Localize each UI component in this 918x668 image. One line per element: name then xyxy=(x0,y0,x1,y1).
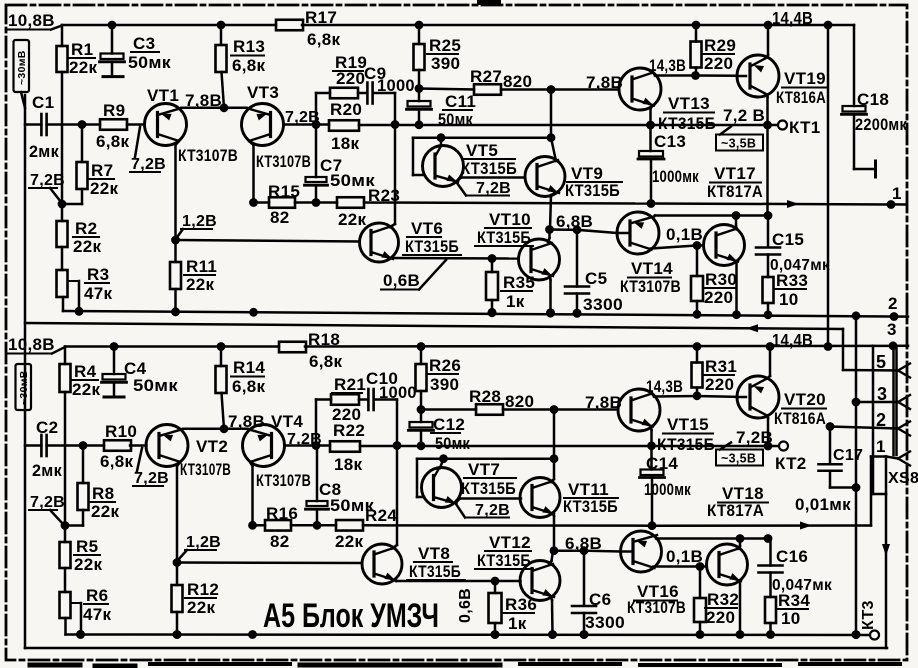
svg-text:5: 5 xyxy=(876,352,886,372)
svg-text:7,8В: 7,8В xyxy=(185,91,222,110)
svg-text:6,8к: 6,8к xyxy=(232,56,266,75)
svg-text:R5: R5 xyxy=(76,537,98,556)
svg-text:14,3В: 14,3В xyxy=(646,377,683,396)
svg-text:22к: 22к xyxy=(72,380,101,399)
svg-text:7,2В: 7,2В xyxy=(476,180,511,197)
svg-text:R34: R34 xyxy=(778,591,810,610)
svg-text:VT2: VT2 xyxy=(196,437,228,456)
svg-text:6,8к: 6,8к xyxy=(309,352,343,371)
svg-text:2200мк: 2200мк xyxy=(855,116,907,134)
svg-text:С18: С18 xyxy=(857,90,889,109)
svg-text:220: 220 xyxy=(704,54,733,73)
svg-text:22к: 22к xyxy=(74,555,103,574)
svg-text:22к: 22к xyxy=(69,58,98,77)
svg-text:КТ315Б: КТ315Б xyxy=(461,159,517,178)
svg-text:КТ315Б: КТ315Б xyxy=(461,479,516,498)
svg-text:R16: R16 xyxy=(266,504,298,523)
svg-text:R30: R30 xyxy=(705,270,737,289)
svg-text:0,6В: 0,6В xyxy=(457,588,474,623)
svg-text:КТ3107В: КТ3107В xyxy=(620,277,681,296)
svg-text:КТ2: КТ2 xyxy=(775,454,807,473)
svg-text:R1: R1 xyxy=(71,40,93,59)
svg-text:КТ315Б: КТ315Б xyxy=(405,237,459,256)
svg-text:VT20: VT20 xyxy=(784,390,826,409)
svg-text:КТ3107В: КТ3107В xyxy=(180,460,231,479)
svg-text:22к: 22к xyxy=(187,598,216,617)
svg-text:6,8к: 6,8к xyxy=(307,30,341,49)
svg-text:10,8В: 10,8В xyxy=(8,335,55,354)
svg-text:КТ816А: КТ816А xyxy=(776,88,826,107)
svg-text:VT1: VT1 xyxy=(147,86,179,105)
svg-text:2: 2 xyxy=(876,410,886,430)
svg-text:С6: С6 xyxy=(589,590,611,609)
svg-text:R8: R8 xyxy=(92,484,114,503)
svg-text:КТ3107В: КТ3107В xyxy=(627,598,686,617)
svg-text:R35: R35 xyxy=(503,273,535,292)
svg-text:10,8В: 10,8В xyxy=(8,11,55,30)
svg-text:R32: R32 xyxy=(707,590,739,609)
svg-text:VT13: VT13 xyxy=(668,94,710,113)
svg-text:22к: 22к xyxy=(338,210,367,229)
svg-text:ХS8: ХS8 xyxy=(888,470,918,487)
svg-text:50мк: 50мк xyxy=(435,435,470,453)
svg-text:КТ315Б: КТ315Б xyxy=(563,497,618,516)
svg-text:0,6В: 0,6В xyxy=(383,271,420,290)
svg-text:С15: С15 xyxy=(772,230,804,249)
svg-text:7,2В: 7,2В xyxy=(30,494,65,511)
svg-text:1000: 1000 xyxy=(379,384,417,402)
svg-text:КТ3107В: КТ3107В xyxy=(256,471,311,490)
svg-text:2мк: 2мк xyxy=(32,461,62,480)
svg-text:R2: R2 xyxy=(75,219,97,238)
svg-text:6,8к: 6,8к xyxy=(100,452,134,471)
svg-text:КТ817А: КТ817А xyxy=(707,501,764,520)
svg-text:7,8В: 7,8В xyxy=(586,73,623,92)
svg-text:VT4: VT4 xyxy=(271,412,303,431)
svg-text:820: 820 xyxy=(503,72,532,91)
svg-text:0,01мк: 0,01мк xyxy=(795,495,851,514)
svg-text:220: 220 xyxy=(336,69,365,88)
svg-text:С17: С17 xyxy=(833,447,863,464)
svg-text:VT19: VT19 xyxy=(784,69,826,88)
svg-text:R26: R26 xyxy=(429,356,461,375)
svg-text:7,8В: 7,8В xyxy=(585,393,622,412)
svg-text:1000: 1000 xyxy=(377,77,415,95)
svg-text:КТ816А: КТ816А xyxy=(774,409,826,428)
svg-text:VT8: VT8 xyxy=(418,544,450,563)
svg-text:7,2В: 7,2В xyxy=(736,428,773,447)
svg-text:R3: R3 xyxy=(87,265,109,284)
svg-text:10: 10 xyxy=(781,609,801,628)
svg-text:1,2В: 1,2В xyxy=(182,213,217,230)
svg-text:R31: R31 xyxy=(705,357,737,376)
svg-text:КТ315Б: КТ315Б xyxy=(477,228,531,247)
svg-text:R29: R29 xyxy=(704,36,736,55)
svg-text:22к: 22к xyxy=(90,179,119,198)
svg-text:22к: 22к xyxy=(91,502,120,521)
svg-text:14,4В: 14,4В xyxy=(772,330,813,350)
svg-text:50мк: 50мк xyxy=(128,53,171,72)
svg-text:7,2В: 7,2В xyxy=(475,502,510,519)
svg-text:6,8к: 6,8к xyxy=(96,132,130,151)
svg-text:18к: 18к xyxy=(334,455,363,474)
svg-text:R11: R11 xyxy=(186,257,217,276)
svg-text:220: 220 xyxy=(705,375,734,394)
svg-text:С12: С12 xyxy=(433,415,465,434)
svg-text:R14: R14 xyxy=(233,358,265,377)
svg-text:220: 220 xyxy=(704,288,733,307)
svg-text:R17: R17 xyxy=(305,8,337,27)
svg-text:82: 82 xyxy=(270,532,290,551)
svg-text:КТ3107В: КТ3107В xyxy=(178,146,238,165)
svg-text:VT7: VT7 xyxy=(468,460,500,479)
svg-text:R7: R7 xyxy=(91,161,113,180)
svg-text:VT5: VT5 xyxy=(466,141,498,160)
svg-text:6,8к: 6,8к xyxy=(232,377,266,396)
svg-text:1000мк: 1000мк xyxy=(652,168,699,186)
svg-text:С1: С1 xyxy=(32,93,54,112)
svg-text:VT10: VT10 xyxy=(489,210,531,229)
svg-text:R27: R27 xyxy=(470,67,502,86)
svg-text:R12: R12 xyxy=(187,580,219,599)
svg-text:R9: R9 xyxy=(103,101,125,120)
svg-text:R21: R21 xyxy=(334,375,366,394)
svg-text:3300: 3300 xyxy=(585,614,625,632)
svg-text:R4: R4 xyxy=(74,362,97,381)
svg-text:10: 10 xyxy=(779,290,799,309)
svg-text:22к: 22к xyxy=(73,237,102,256)
svg-text:1,2В: 1,2В xyxy=(186,534,221,551)
svg-text:7,2 В: 7,2 В xyxy=(723,106,765,125)
svg-text:47к: 47к xyxy=(84,284,113,303)
svg-text:С3: С3 xyxy=(133,34,155,53)
svg-text:КТ3107В: КТ3107В xyxy=(256,153,311,171)
svg-text:390: 390 xyxy=(431,54,460,73)
svg-text:14,4В: 14,4В xyxy=(772,8,813,28)
svg-text:1: 1 xyxy=(892,184,902,203)
svg-text:~3,5В: ~3,5В xyxy=(721,452,756,466)
svg-text:А5 Блок УМЗЧ: А5 Блок УМЗЧ xyxy=(263,597,439,635)
svg-text:R13: R13 xyxy=(233,37,265,56)
svg-text:22к: 22к xyxy=(186,275,215,294)
svg-text:С11: С11 xyxy=(445,92,476,111)
svg-text:390: 390 xyxy=(430,375,459,394)
svg-text:1: 1 xyxy=(876,437,886,456)
svg-text:~30мВ: ~30мВ xyxy=(18,370,30,405)
svg-text:R6: R6 xyxy=(86,586,108,605)
svg-text:3: 3 xyxy=(887,320,897,339)
svg-text:R10: R10 xyxy=(105,422,137,441)
svg-text:VT15: VT15 xyxy=(667,415,709,434)
svg-text:С5: С5 xyxy=(585,269,607,288)
svg-text:7,2В: 7,2В xyxy=(131,156,166,173)
svg-text:КТ3: КТ3 xyxy=(860,600,877,630)
svg-text:VT14: VT14 xyxy=(631,259,673,278)
svg-text:С13: С13 xyxy=(654,132,686,151)
svg-text:47к: 47к xyxy=(83,605,112,624)
svg-text:VT12: VT12 xyxy=(489,533,531,552)
svg-text:С16: С16 xyxy=(776,547,808,566)
svg-text:КТ817А: КТ817А xyxy=(707,182,763,201)
svg-text:1к: 1к xyxy=(508,614,527,633)
svg-text:1к: 1к xyxy=(506,292,525,311)
svg-text:R24: R24 xyxy=(365,506,397,525)
svg-text:14,3В: 14,3В xyxy=(649,56,686,75)
svg-text:С14: С14 xyxy=(646,454,678,473)
svg-text:R33: R33 xyxy=(776,271,808,290)
svg-text:~30мВ: ~30мВ xyxy=(16,50,28,85)
svg-text:18к: 18к xyxy=(331,134,360,153)
svg-text:R22: R22 xyxy=(333,421,365,440)
svg-text:~3,5В: ~3,5В xyxy=(721,137,756,151)
svg-text:R28: R28 xyxy=(469,387,501,406)
svg-text:820: 820 xyxy=(505,392,534,411)
svg-text:3300: 3300 xyxy=(583,296,623,314)
svg-text:22к: 22к xyxy=(335,532,364,551)
svg-text:R15: R15 xyxy=(268,182,300,201)
svg-text:50мк: 50мк xyxy=(438,111,473,129)
svg-text:82: 82 xyxy=(270,208,290,227)
svg-text:КТ315Б: КТ315Б xyxy=(565,181,620,200)
svg-text:КТ315Б: КТ315Б xyxy=(477,551,531,570)
svg-text:КТ315Б: КТ315Б xyxy=(409,562,461,581)
svg-text:КТ1: КТ1 xyxy=(789,118,821,137)
svg-text:1000мк: 1000мк xyxy=(644,481,691,499)
svg-text:7,2В: 7,2В xyxy=(30,172,65,189)
svg-text:3: 3 xyxy=(877,384,887,404)
svg-text:2: 2 xyxy=(888,294,898,313)
svg-text:R18: R18 xyxy=(308,330,340,349)
svg-text:VT3: VT3 xyxy=(247,83,279,102)
svg-text:50мк: 50мк xyxy=(133,376,178,395)
svg-text:R20: R20 xyxy=(330,100,362,119)
svg-text:220: 220 xyxy=(706,608,735,627)
svg-text:VT17: VT17 xyxy=(714,164,756,183)
svg-text:7,2В: 7,2В xyxy=(134,470,169,487)
svg-text:R25: R25 xyxy=(429,36,461,55)
svg-text:2мк: 2мк xyxy=(29,142,59,161)
svg-text:VT6: VT6 xyxy=(411,219,443,238)
